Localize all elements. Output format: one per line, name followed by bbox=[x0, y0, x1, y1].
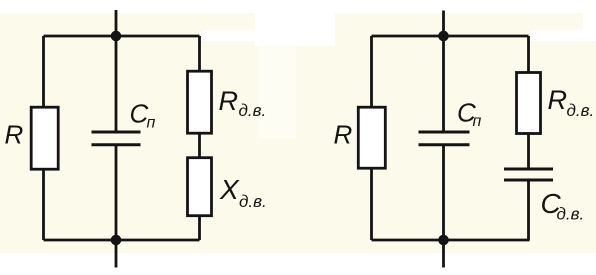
svg-text:п: п bbox=[473, 113, 482, 130]
svg-text:д.в.: д.в. bbox=[557, 205, 585, 224]
svg-text:д.в.: д.в. bbox=[567, 101, 595, 120]
svg-text:R: R bbox=[334, 119, 353, 149]
svg-text:д.в.: д.в. bbox=[239, 101, 267, 120]
svg-text:X: X bbox=[219, 174, 240, 205]
svg-text:R: R bbox=[548, 85, 568, 115]
svg-text:д.в.: д.в. bbox=[239, 192, 267, 211]
svg-text:п: п bbox=[147, 114, 156, 131]
svg-text:R: R bbox=[5, 120, 24, 150]
svg-text:R: R bbox=[219, 86, 239, 116]
